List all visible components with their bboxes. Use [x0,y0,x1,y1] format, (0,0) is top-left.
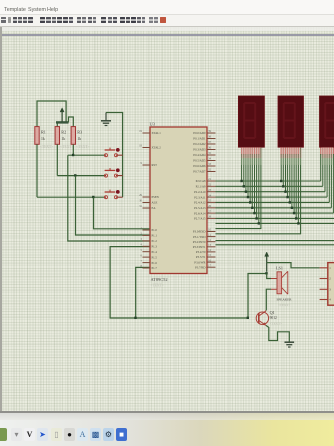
wire DS1 common rail [216,147,261,228]
svg-text:P0.2/AD2: P0.2/AD2 [193,142,206,146]
resistor R3 [71,127,89,150]
svg-text:R3: R3 [77,130,82,135]
svg-text:P0.5/AD5: P0.5/AD5 [193,159,206,163]
svg-text:P2.0/A8: P2.0/A8 [196,179,206,183]
junction node base/P1.7 [134,317,136,319]
svg-text:P1.1: P1.1 [152,234,158,238]
7seg display DS3 [320,96,334,165]
svg-text:<TEXT>: <TEXT> [270,322,283,326]
button S2 [105,168,123,177]
U3 right pin stubs and numbers [193,130,216,269]
resistor R2 [55,127,73,150]
junction node row2 [74,174,76,176]
svg-text:P0.3/AD3: P0.3/AD3 [193,148,206,152]
wire Q1 emitter to ground [266,325,289,341]
wire P1.7 drop to base line [136,267,150,318]
svg-text:LS1: LS1 [276,265,283,270]
svg-text:1k: 1k [61,137,65,141]
svg-text:<TEXT>: <TEXT> [60,145,73,149]
svg-text:<TEXT>: <TEXT> [278,303,291,307]
power flag VCC1 [60,108,64,122]
svg-text:<TEXT>: <TEXT> [76,145,89,149]
wire net row1 (R3 to button S1, to P1.2 tap) [68,144,105,155]
svg-text:<TEXT>: <TEXT> [151,283,164,287]
ground GND2 [285,342,295,347]
ground GND1 [101,113,111,126]
svg-text:18: 18 [139,145,142,148]
transistor Q1 [256,310,282,326]
wire long rail to right edge [216,244,334,246]
svg-text:<TEXT>: <TEXT> [40,145,53,149]
U3 left pin stubs and numbers [139,130,161,270]
speaker LS1 [271,265,292,307]
svg-text:P3.7/RD: P3.7/RD [195,265,206,269]
svg-text:RST: RST [152,163,158,167]
svg-text:P0.7/AD7: P0.7/AD7 [193,170,206,174]
wire speaker top pin [267,274,271,279]
svg-text:P0.6/AD6: P0.6/AD6 [193,164,206,168]
svg-text:1k: 1k [41,137,45,141]
wire row3 to P1.0 [94,197,151,229]
svg-text:P2.4/A12: P2.4/A12 [194,201,206,205]
svg-text:P0.4/AD4: P0.4/AD4 [193,153,206,157]
svg-text:P3.1/TXD: P3.1/TXD [193,235,206,239]
svg-text:31: 31 [139,205,142,208]
svg-text:P3.2/INT0: P3.2/INT0 [193,240,206,244]
svg-text:P2.5/A13: P2.5/A13 [194,206,206,210]
connector J1 (partially off-screen) [320,263,334,306]
wire P1.3 to base line [110,247,248,318]
op-chip U3 AT89C52 body [150,122,208,288]
svg-text:P1.7: P1.7 [152,266,158,270]
wire GND1 to button column [106,113,123,198]
svg-text:9: 9 [141,162,143,165]
svg-text:P1.6: P1.6 [152,261,158,265]
svg-text:P1.4: P1.4 [152,250,158,254]
svg-text:P3.3/INT1: P3.3/INT1 [193,245,206,249]
toolbar [0,14,334,27]
svg-text:ALE: ALE [152,201,158,205]
svg-text:P2.2/A10: P2.2/A10 [194,190,206,194]
svg-text:AT89C52: AT89C52 [151,277,168,282]
svg-text:P3.5/T1: P3.5/T1 [196,255,206,259]
wire VCC2 to connector J1 pin1 [267,263,320,268]
wire DS2 common rail [216,147,301,234]
junction node row3 [92,196,94,198]
svg-text:XTAL1: XTAL1 [152,131,162,135]
svg-text:R1: R1 [41,130,46,135]
svg-text:P3.4/T0: P3.4/T0 [196,250,206,254]
svg-text:7: 7 [141,260,143,263]
svg-text:1k: 1k [77,137,81,141]
junction node base/tap [247,317,249,319]
svg-text:P3.0/RXD: P3.0/RXD [193,230,206,234]
svg-text:P1.0: P1.0 [152,228,158,232]
svg-text:29: 29 [139,194,142,197]
wire row2 to P1.1 [76,176,151,235]
power flag VCC2 [265,252,269,272]
button S1 [105,148,123,157]
wire segment bus lines P2.x to displays [216,181,334,223]
svg-text:P1.5: P1.5 [152,255,158,259]
svg-text:R2: R2 [61,130,66,135]
wire net row2 (R2 to button S2, to P1.1 tap) [57,144,104,175]
svg-text:P0.0/AD0: P0.0/AD0 [193,131,206,135]
wire net row3 (R1 to button S3, to P1.0 tap) [37,144,105,197]
svg-text:P2.7/A15: P2.7/A15 [194,217,206,221]
display DS1 pin wires [240,147,260,224]
svg-text:SPEAKER: SPEAKER [277,298,293,302]
wire speaker bottom pin to Q1 collector [266,289,271,310]
wire base tap to VCC stem junction [248,274,267,319]
svg-text:19: 19 [139,130,142,133]
svg-text:U3: U3 [150,122,156,127]
display DS2 pin wires [280,147,300,224]
wire row1 to P1.2 [68,155,150,241]
junction node stem/tap [265,272,267,274]
svg-text:PSEN: PSEN [152,195,160,199]
svg-text:P2.3/A11: P2.3/A11 [194,195,206,199]
svg-text:9012: 9012 [270,316,277,320]
svg-text:P1.2: P1.2 [152,239,158,243]
wire DS3 common rail (exits right) [216,240,334,242]
svg-text:P3.6/WR: P3.6/WR [194,260,205,264]
wire VCC top loop [37,101,73,127]
svg-text:5: 5 [141,249,143,252]
svg-text:30: 30 [139,200,142,203]
display DS3 pin wires [321,147,334,213]
svg-text:Q1: Q1 [270,310,275,315]
7seg display DS1 [238,96,264,165]
junction node row1 [72,154,74,156]
menu bar [0,0,334,14]
button S3 [105,190,123,199]
svg-text:P2.1/A9: P2.1/A9 [196,185,206,189]
resistor R1 [35,127,53,150]
svg-text:XTAL2: XTAL2 [152,146,162,150]
bottom window edge and taskbar [0,411,334,413]
svg-text:P2.6/A14: P2.6/A14 [194,211,206,215]
svg-text:6: 6 [141,254,143,257]
svg-text:P0.1/AD1: P0.1/AD1 [193,137,206,141]
svg-text:P1.3: P1.3 [152,245,158,249]
7seg display DS2 [278,96,304,165]
